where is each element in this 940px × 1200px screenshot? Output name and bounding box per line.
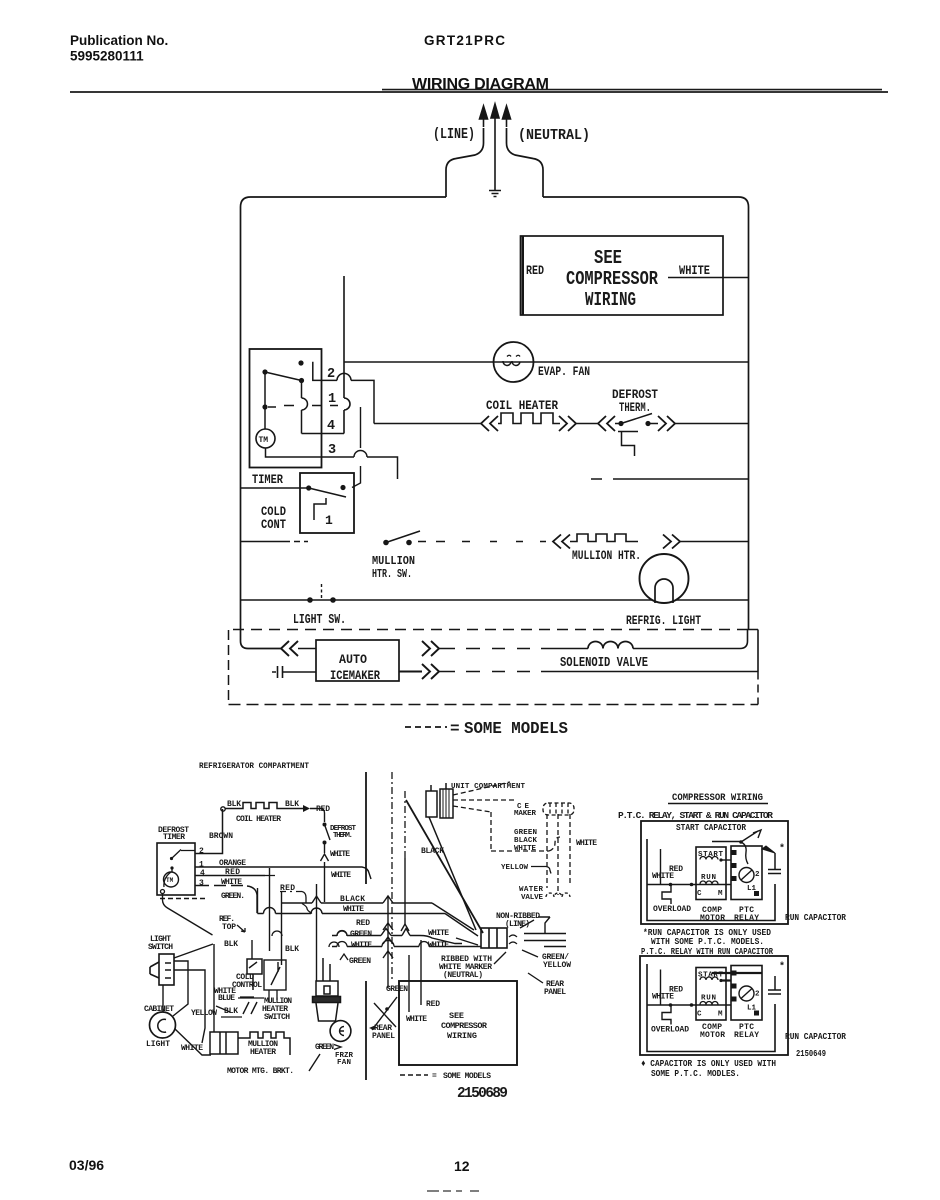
label COMP MOTOR box1: [700, 906, 725, 923]
defrost timer motor TM: [164, 872, 179, 887]
light switch contact right: [330, 597, 336, 603]
box: ptc relay start and run capacitor: [641, 821, 788, 924]
label ICE MAKER: [514, 803, 536, 818]
wire: icemaker return dashed: [439, 671, 553, 673]
label WATER VALVE: [519, 886, 543, 902]
wire: icemaker return solid: [553, 671, 758, 673]
box: timer: [250, 349, 322, 468]
svg-text:L1: L1: [747, 885, 757, 893]
wire: yellow link: [216, 997, 254, 1012]
node: coil heater terminal: [221, 807, 225, 811]
svg-text:=: =: [450, 720, 460, 738]
box: SEE COMPRESSOR WIRING U1: [521, 236, 724, 315]
wire: relay riser curve: [741, 842, 748, 864]
box: cold control: [300, 473, 354, 533]
svg-text:(LINE): (LINE): [433, 126, 475, 143]
svg-text:RED: RED: [225, 868, 240, 877]
hop white rail 2 left: [337, 942, 347, 947]
svg-text:P.T.C. RELAY, START & RUN CAPA: P.T.C. RELAY, START & RUN CAPACITOR: [618, 810, 773, 821]
junction chevron on white drop: [321, 854, 329, 861]
overload protector: [662, 886, 671, 904]
svg-text:2: 2: [755, 991, 760, 999]
svg-text:OVERLOAD: OVERLOAD: [651, 1026, 689, 1035]
wire: white lead terminal 3: [195, 886, 257, 914]
wire: coil heater rail left: [374, 423, 482, 425]
wire: solenoid feed solid: [553, 648, 588, 650]
svg-text:TIMER: TIMER: [163, 833, 185, 842]
wire: light switch diagonal feed: [174, 944, 213, 958]
wire: diagonal D2: [429, 817, 476, 930]
hop white rail 2 V5: [382, 941, 394, 947]
wire: rail to defrost thermostat: [576, 423, 598, 425]
footer faint marks: [427, 1190, 479, 1192]
connector arrows into mullion heater: [553, 535, 570, 549]
junction dots main lead 2: [669, 1003, 673, 1007]
pointer green/yellow: [522, 950, 538, 957]
wire: black bus rail: [282, 902, 433, 904]
wire: white bus rail: [258, 913, 446, 915]
pointer: ref top: [237, 925, 245, 932]
pointer white cord 2: [456, 938, 478, 945]
svg-text:WHITE: WHITE: [181, 1044, 203, 1053]
svg-text:WIRING DIAGRAM: WIRING DIAGRAM: [412, 76, 549, 93]
hop white rail over V2: [264, 908, 276, 914]
svg-text:GRT21PRC: GRT21PRC: [424, 33, 505, 48]
wire: green bus rail: [332, 936, 462, 944]
wire: run capacitor loop: [647, 839, 775, 921]
connector: unit compartment plug: [426, 783, 453, 818]
svg-text:WHITE: WHITE: [331, 871, 351, 880]
arrow rear panel: [369, 1025, 376, 1030]
wire: center drop V4: [316, 884, 318, 981]
svg-text:FAN: FAN: [337, 1059, 351, 1067]
wire: light rail: [241, 599, 749, 601]
wire: black drop V3: [281, 892, 283, 965]
svg-text:SEE: SEE: [449, 1011, 464, 1021]
legend: some models: [405, 719, 568, 738]
legend: some models (lower): [400, 1072, 491, 1081]
svg-text:MOTOR: MOTOR: [700, 914, 725, 923]
svg-text:YELLOW: YELLOW: [191, 1009, 217, 1018]
wire: terminal 3 run: [322, 457, 398, 479]
svg-text:HEATER: HEATER: [250, 1048, 276, 1057]
plug prong arrow (ground): [491, 104, 499, 127]
connector: power cord plug: [481, 928, 507, 948]
svg-text:WHITE: WHITE: [576, 839, 597, 848]
hop: wire 3 over option drop: [354, 451, 367, 458]
resistor: coil heater (lower): [225, 803, 303, 809]
svg-text:AUTO: AUTO: [339, 653, 367, 667]
defrost thermostat (lower) blade: [325, 825, 331, 841]
svg-text:CONT: CONT: [261, 517, 286, 532]
cold control internal step: [314, 498, 326, 520]
svg-text:*: *: [779, 843, 785, 855]
svg-text:ICEMAKER: ICEMAKER: [330, 669, 380, 683]
svg-text:TOP: TOP: [222, 923, 236, 932]
svg-text:3: 3: [199, 879, 204, 888]
resistor: mullion heater: [570, 534, 638, 542]
label WHITE/BLUE: [214, 987, 236, 1003]
svg-text:RUN CAPACITOR: RUN CAPACITOR: [785, 912, 846, 923]
svg-text:BLUE: BLUE: [218, 994, 235, 1003]
svg-text:OVERLOAD: OVERLOAD: [653, 905, 691, 914]
svg-text:SEE: SEE: [594, 247, 622, 269]
light switch contact left: [307, 597, 313, 603]
connector: ice maker dashed: [543, 803, 574, 815]
connector arrows into defrost thermostat: [598, 416, 615, 431]
chevron green rail x406: [402, 929, 410, 936]
junction chevron black rail 1: [312, 896, 321, 903]
wire: dashed option drop: [352, 407, 361, 488]
label COMP MOTOR box2: [700, 1023, 725, 1040]
label COLD CONT: [261, 504, 286, 532]
resistor: coil heater: [498, 413, 560, 424]
ground symbol: [489, 191, 501, 197]
wire: run capacitor loop 2: [647, 964, 775, 1052]
label MULLION HTR. SW.: [372, 555, 415, 581]
defrost thermostat bracket: [618, 432, 638, 457]
label NON-RIBBED (LINE): [496, 912, 540, 929]
svg-text:WHITE: WHITE: [514, 845, 536, 853]
wire: rear panel diagonal: [372, 997, 397, 1030]
wire: divider dash-dot: [391, 772, 393, 980]
svg-text:LIGHT: LIGHT: [146, 1040, 170, 1049]
defrost timer blade: [172, 850, 196, 859]
wire: timer motor to terminal 3: [266, 448, 322, 457]
power cord right neck: [507, 128, 544, 197]
svg-text:COIL HEATER: COIL HEATER: [486, 398, 558, 413]
svg-text:YELLOW: YELLOW: [501, 864, 528, 872]
component: door light switch: [150, 954, 174, 985]
svg-text:START CAPACITOR: START CAPACITOR: [676, 823, 747, 833]
wire: brown riser to coil heater: [195, 809, 223, 854]
connector arrows into coil heater: [481, 416, 498, 431]
svg-text:4: 4: [200, 869, 205, 878]
svg-text:COMPRESSOR: COMPRESSOR: [566, 268, 658, 290]
power cord left neck: [446, 128, 484, 197]
svg-text:REFRIGERATOR COMPARTMENT: REFRIGERATOR COMPARTMENT: [199, 761, 309, 771]
wire: timer motor lead: [164, 869, 172, 887]
svg-text:WHITE: WHITE: [351, 941, 372, 950]
label GREEN/YELLOW: [542, 953, 571, 970]
switch: mullion heater switch symbol: [243, 960, 286, 1014]
svg-text:RED: RED: [356, 919, 370, 928]
svg-text:1: 1: [325, 513, 333, 528]
svg-text:BLACK: BLACK: [340, 895, 365, 904]
box: auto icemaker: [316, 640, 399, 683]
label PTC RELAY box2: [734, 1023, 759, 1040]
svg-text:2150649: 2150649: [796, 1048, 826, 1059]
wire: red dash-dot continuation: [265, 876, 306, 903]
wire: feed drop to evap fan rail: [343, 276, 345, 434]
light switch dashed actuator: [321, 584, 323, 598]
wire: dashed option from lower-left contact: [268, 406, 338, 408]
wire: defrost rail to neutral edge: [675, 423, 749, 425]
svg-text:C: C: [697, 1011, 702, 1019]
svg-text:EVAP. FAN: EVAP. FAN: [538, 364, 590, 379]
svg-text:BLK: BLK: [227, 800, 241, 809]
header: publication number: [70, 33, 168, 64]
wire: curly junction: [272, 904, 312, 937]
svg-text:RED: RED: [526, 263, 544, 278]
svg-text:SOME MODELS: SOME MODELS: [464, 719, 568, 738]
motor: evaporator fan: [494, 342, 534, 382]
wire: red compressor lead drop: [420, 940, 422, 1005]
label REAR PANEL right: [544, 980, 566, 997]
wire: solenoid to corner: [633, 630, 748, 649]
hop: feed over dashed wire: [344, 398, 350, 410]
svg-text:12: 12: [454, 1158, 470, 1174]
label REAR PANEL left: [372, 1024, 395, 1041]
svg-text:SWITCH: SWITCH: [148, 943, 173, 952]
svg-text:1: 1: [328, 392, 336, 407]
some models dashed box: [229, 630, 759, 705]
svg-text:YELLOW: YELLOW: [543, 961, 571, 970]
arrow: run cap to relay: [762, 846, 775, 853]
lamp: cabinet light: [150, 1012, 176, 1038]
svg-text:BLACK: BLACK: [421, 847, 444, 856]
chevron green mid: [340, 954, 348, 960]
label FRZR FAN: [335, 1052, 353, 1067]
svg-text:WHITE: WHITE: [406, 1015, 427, 1024]
capacitor: icemaker water fill: [272, 666, 316, 678]
label MULLION HEATER text: [248, 1040, 278, 1057]
arrow green fan: [334, 1045, 341, 1050]
chevron green rail V5: [381, 929, 391, 936]
pointer yellow: [531, 867, 551, 874]
box: defrost timer: [157, 843, 195, 895]
svg-text:HTR. SW.: HTR. SW.: [372, 568, 412, 581]
svg-text:TIMER: TIMER: [252, 472, 283, 487]
wire: white compressor lead: [668, 277, 749, 279]
connector arrows out of icemaker top: [422, 641, 439, 656]
chevron x405: [401, 924, 409, 931]
wire: white branch riser: [660, 849, 662, 885]
wire: cord squiggle relief: [509, 935, 517, 944]
bracket: motor mounting: [238, 1032, 290, 1055]
svg-text:GREEN: GREEN: [350, 930, 372, 939]
wire: evap fan rail: [344, 361, 749, 363]
label DEFROST THERM (lower): [330, 825, 356, 840]
wire: light switch to cabinet light: [162, 985, 164, 1012]
header rule: [70, 91, 888, 93]
wire: switch pin to lamp shell: [173, 961, 188, 1016]
svg-text:WHITE: WHITE: [343, 905, 364, 914]
svg-text:MULLION: MULLION: [372, 555, 415, 568]
lamp: refrigerator light: [640, 554, 689, 603]
svg-text:MAKER: MAKER: [514, 810, 536, 818]
svg-text:TM: TM: [259, 436, 269, 445]
svg-text:WIRING: WIRING: [585, 289, 636, 311]
wire: white drop V6: [257, 888, 259, 914]
svg-text:BLK: BLK: [285, 945, 299, 954]
connector arrows out of icemaker bottom: [399, 664, 439, 679]
svg-text:VALVE: VALVE: [521, 894, 543, 902]
wire: terminal 2 to coil heater rail: [351, 380, 374, 423]
connector arrows out of mullion heater: [663, 535, 680, 549]
timer contact lower-left: [262, 404, 267, 409]
capacitor: run capacitor plates: [768, 853, 781, 874]
pointer rear panel right: [528, 973, 543, 983]
arrow: relay top: [741, 830, 761, 842]
wire: ground stem: [494, 127, 496, 190]
wire: some models tick: [309, 1054, 320, 1071]
svg-text:PANEL: PANEL: [372, 1032, 395, 1041]
capacitor: run capacitor plates 2: [768, 976, 781, 994]
timer motor TM: [256, 429, 275, 448]
plug prong arrow (line): [480, 106, 488, 127]
svg-text:BLK: BLK: [224, 1007, 238, 1016]
svg-text:BLK: BLK: [285, 800, 299, 809]
wire: cabinet light white lead: [175, 1029, 211, 1055]
svg-text:=: =: [432, 1072, 437, 1081]
inductor: solenoid valve: [588, 642, 633, 649]
node: rear panel junction: [385, 1007, 389, 1011]
svg-text:5995280111: 5995280111: [70, 49, 144, 64]
wire: icemaker dashed leads: [453, 782, 560, 851]
heater: mullion heater (lower): [210, 1032, 238, 1054]
label DEFROST TIMER: [158, 826, 189, 842]
wire: red lead corner: [310, 809, 325, 823]
timer contact top: [298, 360, 303, 365]
wire: orange lead terminal 1: [195, 867, 371, 879]
wire: black drop x214: [213, 944, 215, 1032]
hop white rail over V4: [311, 908, 322, 914]
svg-text:RED: RED: [426, 1000, 440, 1009]
svg-text:COMPRESSOR: COMPRESSOR: [441, 1021, 488, 1031]
motor: freezer fan: [330, 1021, 351, 1042]
box: ptc relay device: [731, 846, 762, 900]
wire: outer loop top right + right edge: [543, 197, 749, 630]
inductor: water valve dashed: [546, 893, 570, 897]
svg-text:CABINET: CABINET: [144, 1005, 174, 1014]
svg-text:RELAY: RELAY: [734, 914, 759, 923]
svg-text:*: *: [779, 961, 785, 973]
wire: rails merging to plug connector: [432, 903, 478, 936]
svg-text:WATER: WATER: [519, 886, 543, 894]
label MULLION HEATER SWITCH: [262, 997, 292, 1022]
svg-text:RED: RED: [669, 865, 683, 874]
svg-text:WHITE: WHITE: [221, 878, 242, 887]
svg-text:RELAY: RELAY: [734, 1031, 759, 1040]
svg-text:C: C: [697, 890, 702, 898]
label PTC RELAY box1: [734, 906, 759, 923]
wire: bus stub to cold control: [251, 940, 253, 959]
svg-text:REFRIG. LIGHT: REFRIG. LIGHT: [626, 613, 701, 628]
label DEFROST THERM.: [612, 388, 658, 415]
svg-text:THERM.: THERM.: [619, 401, 651, 415]
svg-text:WHITE: WHITE: [330, 850, 350, 859]
wire: green lead from timer: [163, 894, 213, 935]
wire: divider dash-dot 2: [404, 791, 406, 858]
wire: vertical x405: [404, 858, 406, 924]
wire: orange drop V2: [269, 868, 271, 951]
wire: white branch riser 2: [660, 970, 662, 1006]
svg-text:TM: TM: [166, 877, 174, 884]
svg-text:SOME MODELS: SOME MODELS: [443, 1072, 491, 1081]
svg-text:START: START: [698, 851, 723, 859]
wire: switch pin drop x205: [174, 970, 205, 1043]
note: run capacitor only used: [643, 927, 771, 947]
wire: mullion rail from line edge: [241, 541, 309, 543]
svg-text:WHITE: WHITE: [428, 941, 449, 950]
svg-text:LIGHT SW.: LIGHT SW.: [293, 613, 346, 628]
box: see compressor wiring (lower): [399, 981, 517, 1065]
svg-text:BLACK: BLACK: [514, 837, 537, 845]
wire: red lead terminal 4: [195, 875, 265, 877]
wire: main white lead: [647, 884, 731, 886]
wire: compartment divider lower: [365, 981, 367, 1080]
wire: timer left contact to motor: [264, 374, 266, 429]
svg-text:2: 2: [199, 847, 204, 856]
svg-text:2: 2: [755, 871, 760, 879]
dashed mount under defrost timer: [160, 898, 206, 900]
wire: dashed mullion option: [418, 541, 546, 543]
svg-text:M: M: [718, 1011, 723, 1019]
wire: line edge corner to icemaker: [241, 641, 282, 649]
svg-text:RED: RED: [669, 986, 683, 995]
defrost thermostat (lower) contact bottom: [323, 841, 327, 845]
timer switch blade: [265, 372, 302, 381]
svg-text:3: 3: [328, 443, 336, 458]
box: comp motor 2: [696, 968, 726, 1021]
wire: cord non-ribbed lead: [524, 917, 566, 934]
wire: arrows to icemaker box: [298, 648, 316, 650]
defrost thermostat contacts: [615, 414, 658, 424]
wire: blue lead to switch: [221, 998, 264, 1017]
plug prong arrow (neutral): [503, 106, 511, 127]
arrow: coil heater to red lead: [303, 805, 310, 812]
svg-text:GREEN: GREEN: [315, 1043, 334, 1052]
wire: outer loop left edge: [241, 197, 447, 641]
svg-text:M: M: [718, 890, 723, 898]
hop: terminal 2 wire over feed: [337, 373, 351, 380]
svg-text:SOLENOID VALVE: SOLENOID VALVE: [560, 656, 648, 671]
wire: switch to heater leads: [269, 990, 277, 1002]
wire: start cap connection: [712, 841, 741, 843]
wire: terminal 2 lead: [313, 362, 337, 381]
cold control contact left: [306, 485, 311, 490]
svg-text:MULLION HTR.: MULLION HTR.: [572, 549, 641, 563]
wire: timer common drop terminal 4: [302, 383, 345, 434]
defrost timer contacts: [170, 857, 173, 860]
svg-text:RUN CAPACITOR: RUN CAPACITOR: [785, 1031, 846, 1042]
junction dots main lead: [669, 883, 673, 887]
box: ptc relay device 2: [731, 966, 762, 1021]
svg-text:MOTOR MTG. BRKT.: MOTOR MTG. BRKT.: [227, 1067, 294, 1076]
timer contact common: [299, 378, 304, 383]
junction chevrons V5: [383, 923, 393, 958]
svg-text:GREEN: GREEN: [514, 829, 537, 837]
component: cold control (lower): [247, 959, 262, 990]
svg-text:WIRING: WIRING: [447, 1031, 477, 1041]
wire: white compressor lead drop: [408, 955, 410, 1012]
wire: cord ribbed lead: [524, 941, 566, 947]
svg-text:MOTOR: MOTOR: [700, 1031, 725, 1040]
box: comp motor: [696, 847, 726, 900]
svg-text:2150689: 2150689: [457, 1086, 508, 1102]
wire: start winding to relay: [721, 859, 731, 861]
svg-text:DEFROST: DEFROST: [612, 388, 658, 402]
label COMPRESSOR WIRING title: [668, 792, 768, 804]
hop white rail 2 x424: [419, 942, 429, 947]
label COLD CONTROL: [232, 973, 262, 990]
mullion heater switch blade: [386, 531, 420, 543]
connector arrows into icemaker: [281, 641, 298, 656]
wire: corner tick: [740, 629, 758, 631]
junction chevron white2: [329, 942, 339, 947]
svg-text:2: 2: [327, 367, 335, 382]
